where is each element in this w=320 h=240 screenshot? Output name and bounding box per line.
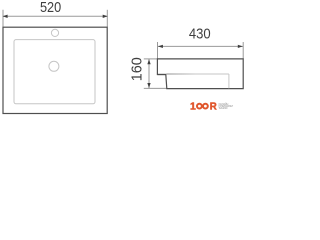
svg-text:R: R (210, 101, 217, 113)
extension line right of 430 dimension (242, 42, 244, 59)
logo ring O (first zero) (197, 104, 202, 109)
extension line right of 520 dimension (106, 10, 108, 27)
left arrow of 430 dimension (158, 45, 163, 48)
svg-text:520: 520 (40, 0, 61, 16)
dimension line 160 (148, 59, 150, 89)
right arrow of 520 dimension (103, 15, 108, 18)
step notch of profile (157, 74, 165, 76)
dimension line 520 (3, 15, 107, 17)
left arrow of 520 dimension (3, 15, 8, 18)
right arrow of 430 dimension (238, 45, 243, 48)
dimension line 430 (158, 45, 244, 47)
inner bowl (rounded rectangle) (14, 40, 95, 104)
svg-text:160: 160 (128, 57, 145, 81)
bottom arrow of 160 dimension (147, 83, 150, 88)
inner ledge line (horizontal) (166, 73, 229, 75)
outer rim of basin (top view) (3, 27, 107, 113)
extension line left of 520 dimension (2, 10, 4, 27)
extension line left of 430 dimension (157, 42, 159, 59)
svg-text:430: 430 (189, 25, 211, 42)
top arrow of 160 dimension (147, 59, 150, 64)
svg-text:ТЕХНИКИ: ТЕХНИКИ (219, 106, 228, 110)
drain hole (49, 61, 59, 71)
top extension tick of 160 dimension (144, 58, 158, 60)
bottom extension tick of 160 dimension (144, 87, 167, 89)
svg-text:1: 1 (190, 101, 196, 113)
logo ring O (second zero) (203, 104, 208, 109)
faucet hole (51, 29, 58, 36)
inner ledge line (vertical drop) (228, 74, 230, 88)
basin profile outline (side view) (157, 59, 243, 89)
